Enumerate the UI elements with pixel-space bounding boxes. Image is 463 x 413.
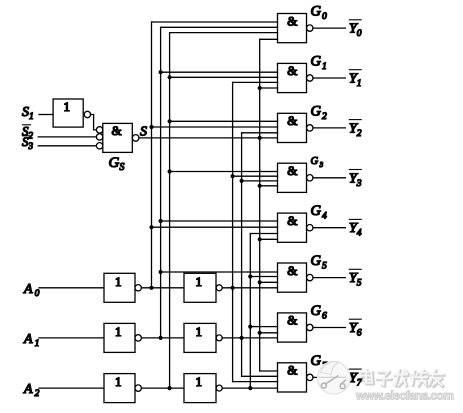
- wire A0 between inverters: [141, 287, 184, 289]
- wire input of G4: [250, 233, 277, 235]
- junction dot A2 row / A2 bus: [248, 386, 252, 390]
- wire A1 true row to gate column: [222, 337, 277, 339]
- wire A1 between inverters: [141, 337, 184, 339]
- wire input of G0: [170, 32, 278, 34]
- wire input of G4: [152, 226, 278, 228]
- wire input of G5: [260, 281, 278, 283]
- junction dot: [159, 219, 163, 223]
- GS input bubbles: [96, 127, 102, 133]
- junction dot: [231, 174, 235, 178]
- wire G3 output to Y3: [313, 177, 345, 179]
- and-gate GS: [103, 123, 133, 152]
- G7 output bubble: [307, 374, 313, 380]
- inverter A0 stage 2: [184, 273, 216, 302]
- overline of Y1: [349, 69, 361, 71]
- wire G2 output to Y2: [313, 127, 345, 129]
- junction dot A2 row / A2-bar bus: [168, 386, 172, 390]
- wire input of G1: [233, 81, 278, 83]
- svg-text:1: 1: [196, 274, 203, 289]
- wire G5 output to Y5: [313, 277, 345, 279]
- inverter A0 stage 2 output bubble: [216, 285, 222, 291]
- inverter A0 stage 1 output bubble: [135, 285, 141, 291]
- wire input of G3: [233, 175, 278, 177]
- wire input of G7: [233, 381, 278, 383]
- svg-text:1: 1: [196, 324, 203, 339]
- junction dot: [168, 119, 172, 123]
- wire bus A0-bar vertical: [151, 22, 153, 288]
- wire input of G3: [242, 180, 278, 182]
- junction dot S row / S bus: [258, 136, 262, 140]
- overline of Y7: [349, 368, 361, 370]
- wire bus A2 vertical: [249, 234, 251, 389]
- wire bus A0 vertical: [232, 82, 234, 381]
- inverter A2 stage 1 output bubble: [135, 385, 141, 391]
- and-gate G7: [278, 363, 307, 392]
- wire G4 output to Y4: [313, 227, 345, 229]
- svg-text:1: 1: [196, 374, 203, 389]
- junction dot: [248, 274, 252, 278]
- inverter A1 stage 2: [184, 323, 216, 352]
- GS output bubble: [132, 135, 139, 142]
- overline of Y6: [349, 318, 361, 320]
- and-gate G1: [278, 63, 307, 92]
- wire A2 true row to gate column: [222, 387, 277, 389]
- wire G6 output to Y6: [313, 327, 345, 329]
- G2 output bubble: [307, 125, 313, 131]
- wire input of G3: [170, 171, 278, 173]
- junction dot: [240, 179, 244, 183]
- overline of Y3: [349, 169, 361, 171]
- wire input of G1: [161, 71, 278, 73]
- inverter A2 stage 2: [184, 374, 216, 403]
- junction dot: [258, 86, 262, 90]
- wire input of G7: [260, 370, 278, 372]
- wire input of G2: [152, 126, 278, 128]
- junction dot A0 row / A0 bus: [231, 286, 235, 290]
- inverter A2 stage 1: [104, 374, 135, 403]
- wire input of G4: [260, 238, 278, 240]
- wire bus S vertical: [259, 39, 261, 371]
- wire bus A1-bar vertical: [160, 27, 162, 338]
- svg-text:&: &: [287, 363, 297, 378]
- junction dot A0 row / A0-bar bus: [149, 286, 153, 290]
- wire input of G4: [161, 220, 278, 222]
- wire bus A2-bar vertical: [169, 33, 171, 389]
- wire A2 between inverters: [141, 387, 184, 389]
- svg-text:1: 1: [64, 99, 71, 114]
- wire G1 output to Y1: [313, 77, 345, 79]
- watermark text dian-zi-fa-shao-you (vector strokes): [361, 371, 444, 387]
- G3 output bubble: [307, 175, 313, 181]
- and-gate G0: [278, 14, 307, 43]
- wire input of G0: [260, 38, 278, 40]
- wire A1 input to first inverter: [39, 337, 104, 339]
- wire input of G1: [170, 76, 278, 78]
- and-gate G5: [278, 263, 307, 292]
- wire input of G5: [161, 271, 278, 273]
- svg-text:&: &: [112, 123, 122, 138]
- junction dot: [258, 280, 262, 284]
- inverter A2 stage 2 output bubble: [216, 385, 222, 391]
- wire input of G2: [170, 120, 278, 122]
- junction dot: [258, 184, 262, 188]
- junction dot: [168, 169, 172, 173]
- watermark badge icon (overlay): [318, 362, 351, 395]
- junction dot: [258, 237, 262, 241]
- junction dot: [149, 225, 153, 229]
- overline of Y4: [349, 218, 361, 220]
- junction dot A1 row / A1-bar bus: [159, 336, 163, 340]
- G4 output bubble: [307, 225, 313, 231]
- overline of Y5: [349, 268, 361, 270]
- wire bus A1 vertical: [241, 133, 243, 376]
- junction dot: [258, 331, 262, 335]
- inverter A1 stage 1: [104, 323, 135, 352]
- svg-text:1: 1: [115, 374, 122, 389]
- wire input of G6: [250, 326, 277, 328]
- overline of Y2: [349, 119, 361, 121]
- wire input of G1: [260, 87, 278, 89]
- junction dot: [159, 270, 163, 274]
- wire input of G2: [242, 132, 278, 134]
- inverter U1 for S1 ("1" box): [53, 99, 83, 127]
- svg-text:&: &: [287, 63, 297, 78]
- svg-text:www.elecfans.com: www.elecfans.com: [355, 389, 453, 403]
- and-gate G4: [278, 213, 307, 242]
- svg-text:&: &: [287, 13, 297, 28]
- wire input of G3: [260, 185, 278, 187]
- svg-text:&: &: [287, 113, 297, 128]
- G5 output bubble: [307, 274, 313, 280]
- svg-text:&: &: [287, 263, 297, 278]
- wire input of G0: [152, 21, 278, 23]
- junction dot: [159, 70, 163, 74]
- wire input of G5: [250, 276, 277, 278]
- wire S3 to GS input 3: [38, 145, 96, 147]
- wire input of G6: [260, 332, 278, 334]
- inverter A1 stage 2 output bubble: [216, 335, 222, 341]
- wire U1 output down to GS input 1: [91, 115, 97, 130]
- wire A2 input to first inverter: [39, 387, 104, 389]
- G6 output bubble: [307, 324, 313, 330]
- inverter A1 stage 1 output bubble: [135, 335, 141, 341]
- wire A0 true row to gate column: [222, 287, 277, 289]
- wire input of G7: [242, 375, 278, 377]
- G0 output bubble: [307, 25, 313, 31]
- overline of Y0: [349, 19, 361, 21]
- and-gate G6: [278, 313, 307, 342]
- inverter A0 stage 1: [104, 273, 135, 302]
- wire G7 output to Y7: [313, 376, 345, 378]
- junction dot A1 row / A1 bus: [240, 336, 244, 340]
- G1 output bubble: [307, 75, 313, 81]
- wire S row from GS output to G2 input 4: [139, 137, 278, 139]
- svg-text:&: &: [287, 163, 297, 178]
- wire G0 output to Y0: [313, 27, 345, 29]
- inverter U1 output bubble: [84, 111, 90, 117]
- wire A0 input to first inverter: [39, 287, 104, 289]
- svg-text:1: 1: [115, 274, 122, 289]
- svg-text:&: &: [287, 313, 297, 328]
- junction dot: [248, 325, 252, 329]
- wire S1 to inverter: [39, 114, 53, 116]
- wire S2 to GS input 2: [38, 136, 96, 138]
- and-gate G3: [278, 163, 307, 192]
- and-gate G2: [278, 113, 307, 142]
- svg-text:1: 1: [115, 324, 122, 339]
- wire input of G0: [161, 26, 278, 28]
- junction dot: [168, 75, 172, 79]
- junction dot: [149, 125, 153, 129]
- svg-text:&: &: [287, 213, 297, 228]
